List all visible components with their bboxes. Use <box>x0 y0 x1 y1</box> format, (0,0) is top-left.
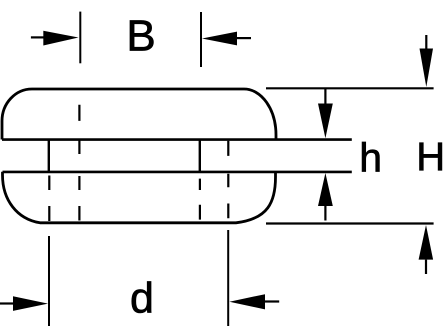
groove left solid edge <box>48 140 50 173</box>
grommet top flange outline <box>2 89 276 140</box>
dimension d right extension line <box>227 230 229 326</box>
dimension d left arrow <box>0 302 15 304</box>
dimension H bottom extension line <box>266 222 434 224</box>
hidden hole line x=228 <box>227 141 229 219</box>
svg-text:B: B <box>126 11 155 60</box>
dimension B right arrow <box>237 37 251 39</box>
dimension H down arrow <box>425 35 427 49</box>
dimension B right extension line <box>200 12 202 67</box>
grommet bottom flange outline <box>3 172 276 223</box>
groove right solid edge <box>199 140 201 173</box>
dimension h up arrow <box>324 206 326 221</box>
svg-text:h: h <box>359 135 382 181</box>
wire: bottom flange top edge + h bottom extension line <box>3 171 352 174</box>
dimension B left extension line <box>79 12 81 64</box>
dimension h down arrow <box>324 89 326 104</box>
wire: flange bottom edge + h top extension line <box>2 138 352 141</box>
svg-text:d: d <box>130 275 154 323</box>
dimension H up arrow <box>425 260 427 274</box>
dimension B left arrow <box>31 36 45 38</box>
dimension d left extension line <box>48 236 50 326</box>
hidden edge line x=49 <box>48 176 50 222</box>
hidden edge line x=200 <box>199 179 201 220</box>
dimension H top extension line <box>266 87 434 89</box>
hidden hole line x=79 <box>78 105 80 221</box>
svg-text:H: H <box>416 135 443 179</box>
dimension d right arrow <box>264 300 279 302</box>
